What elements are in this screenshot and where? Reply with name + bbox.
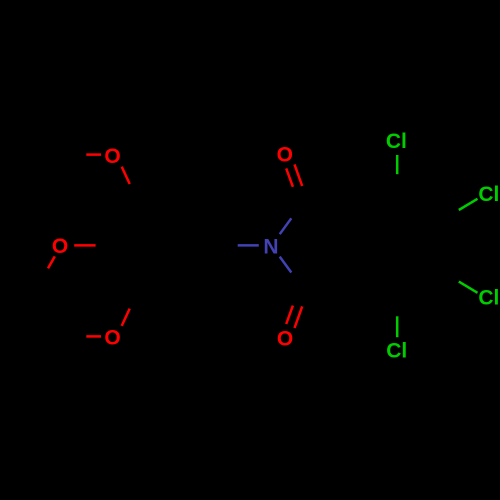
svg-text:O: O xyxy=(277,144,293,167)
svg-text:O: O xyxy=(277,328,293,351)
C=O top double line a xyxy=(286,168,293,186)
bond N-C(=O)top blue half xyxy=(280,218,292,234)
svg-text:Cl: Cl xyxy=(478,183,499,206)
bond Cl upper-right green half xyxy=(459,199,478,210)
bond Cl top green half xyxy=(396,155,399,174)
bond O1-CH3 red half xyxy=(86,153,101,156)
bond O1-ring red half xyxy=(122,167,130,184)
svg-text:O: O xyxy=(104,327,120,350)
bond O2-ring red half xyxy=(74,244,95,247)
svg-text:Cl: Cl xyxy=(478,287,499,310)
C=O bottom double line b xyxy=(295,306,303,328)
bond Cl bottom green half xyxy=(396,316,399,337)
bond O3-CH3 red half xyxy=(86,335,101,338)
svg-text:O: O xyxy=(104,145,120,168)
bond O2-CH3 red half xyxy=(48,256,55,268)
bond N-C(=O)bottom blue half xyxy=(280,257,292,273)
C=O bottom double line a xyxy=(286,306,293,324)
bond O3-ring red half xyxy=(122,309,130,326)
C=O top double line b xyxy=(295,164,303,186)
svg-text:Cl: Cl xyxy=(386,340,407,363)
svg-text:O: O xyxy=(52,235,68,258)
bond N-phenyl blue half xyxy=(238,244,259,247)
svg-text:Cl: Cl xyxy=(386,130,407,153)
bond Cl lower-right green half xyxy=(459,282,478,293)
svg-text:N: N xyxy=(263,236,278,259)
